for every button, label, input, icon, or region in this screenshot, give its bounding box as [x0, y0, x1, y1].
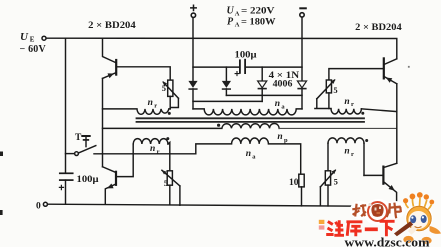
svg-text:A: A — [235, 21, 240, 28]
svg-text:= 180W: = 180W — [241, 17, 276, 27]
svg-text:A: A — [235, 11, 240, 18]
svg-text:2 × BD204: 2 × BD204 — [355, 23, 402, 33]
svg-text:n: n — [150, 144, 155, 154]
svg-text:n: n — [277, 132, 282, 142]
svg-text:100μ: 100μ — [77, 175, 100, 185]
svg-text:− 60V: − 60V — [20, 44, 47, 55]
svg-text:E: E — [30, 36, 35, 44]
svg-text:p: p — [284, 137, 288, 144]
svg-text:r: r — [351, 101, 354, 108]
svg-text:n: n — [246, 149, 251, 159]
svg-text:r: r — [351, 151, 354, 158]
svg-text:n: n — [275, 99, 280, 109]
svg-text:4006: 4006 — [273, 78, 293, 88]
svg-text:5: 5 — [333, 85, 337, 95]
svg-text:P: P — [227, 16, 234, 27]
svg-text:10: 10 — [289, 178, 299, 188]
svg-text:T: T — [75, 133, 82, 143]
svg-text:U: U — [20, 31, 29, 43]
svg-text:r: r — [154, 102, 157, 109]
svg-text:5: 5 — [162, 83, 166, 93]
svg-text:2 × BD204: 2 × BD204 — [88, 21, 136, 31]
svg-text:U: U — [227, 6, 235, 17]
svg-text:n: n — [344, 97, 349, 107]
svg-text:5: 5 — [164, 178, 168, 188]
svg-text:= 220V: = 220V — [241, 7, 275, 17]
svg-text:n: n — [344, 147, 349, 157]
svg-text:www.dzsc.com: www.dzsc.com — [345, 236, 431, 247]
svg-text:5: 5 — [334, 176, 338, 186]
svg-text:r: r — [157, 148, 160, 155]
svg-text:n: n — [148, 98, 153, 108]
svg-text:100μ: 100μ — [235, 51, 258, 61]
svg-text:0: 0 — [36, 201, 41, 211]
